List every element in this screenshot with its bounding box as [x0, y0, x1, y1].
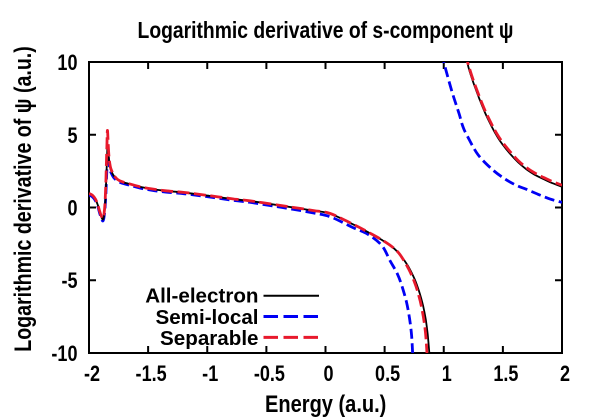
svg-text:Separable: Separable: [160, 328, 258, 350]
svg-text:5: 5: [67, 124, 77, 148]
axis ticks: [89, 62, 562, 353]
svg-text:-2: -2: [84, 362, 100, 386]
curve Semi-local blue branch 1: [89, 154, 413, 362]
svg-text:1: 1: [442, 362, 452, 386]
svg-text:All-electron: All-electron: [145, 286, 258, 308]
svg-text:2: 2: [560, 362, 570, 386]
svg-text:-10: -10: [51, 342, 77, 366]
svg-text:0: 0: [67, 197, 77, 221]
curve Semi-local blue branch 2: [442, 53, 562, 202]
svg-text:-1: -1: [202, 362, 218, 386]
svg-text:Energy (a.u.): Energy (a.u.): [265, 390, 386, 417]
svg-text:-0.5: -0.5: [254, 362, 285, 386]
curve All-electron black branch 1: [89, 145, 430, 362]
svg-text:-1.5: -1.5: [136, 362, 167, 386]
y tick labels: [51, 51, 77, 366]
svg-text:Logarithmic derivative of ψ (a: Logarithmic derivative of ψ (a.u.): [9, 46, 36, 352]
svg-text:Semi-local: Semi-local: [155, 307, 258, 329]
plot frame: [89, 62, 562, 353]
svg-text:10: 10: [57, 51, 77, 75]
svg-text:0: 0: [323, 362, 333, 386]
svg-text:-5: -5: [61, 270, 77, 294]
svg-text:1.5: 1.5: [493, 362, 518, 386]
curve All-electron black branch 2: [466, 53, 562, 187]
svg-text:0.5: 0.5: [375, 362, 400, 386]
legend: [145, 286, 258, 350]
svg-text:Logarithmic derivative of s-co: Logarithmic derivative of s-component ψ: [138, 19, 514, 44]
curve Separable red branch 2: [465, 53, 562, 185]
x tick labels: [84, 362, 570, 386]
curve Separable red branch 1: [89, 130, 427, 361]
